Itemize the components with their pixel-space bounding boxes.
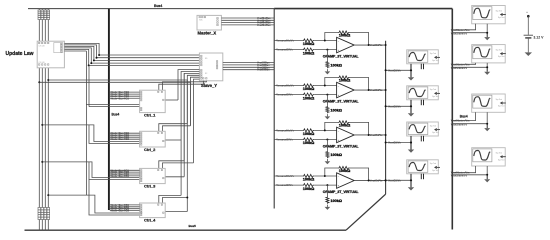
instrument scope XSC4 (middle column) — [407, 160, 439, 174]
ground scope XSC6 — [486, 67, 488, 71]
wire tap to Ctrl_2 — [41, 124, 43, 126]
op-amp U1 OPAMP_3T_VIRTUAL — [337, 37, 355, 53]
wire bus Bus4 top horizontal — [28, 8, 274, 10]
scope XSC7 screen — [473, 95, 492, 108]
instrument scope XSC2 (middle column) — [407, 86, 439, 100]
junction — [93, 59, 95, 61]
pin scope XSC2 left — [410, 100, 412, 114]
wire long vertical B — [88, 65, 90, 106]
svg-text:100kΩ: 100kΩ — [303, 42, 315, 46]
op-amp U2 OPAMP_3T_VIRTUAL — [337, 82, 355, 98]
svg-text:OPAMP_3T_VIRTUAL: OPAMP_3T_VIRTUAL — [323, 100, 360, 104]
subcircuit Update Law — [37, 41, 64, 68]
junction — [88, 64, 90, 66]
svg-text:Sys Test: Sys Test — [498, 55, 505, 58]
svg-text:Sys Test: Sys Test — [496, 98, 503, 101]
svg-text:VoutCtl/Vo: VoutCtl/Vo — [388, 141, 401, 145]
pins Update Law right port block — [54, 43, 63, 53]
svg-text:Slave_Y: Slave_Y — [201, 83, 217, 88]
resistor bottom bus R8 — [47, 208, 50, 220]
scope XSC6 screen — [473, 46, 492, 59]
wire scope XSC5 input 2 — [452, 24, 487, 33]
ground stage 2 — [325, 116, 331, 119]
svg-text:Ctrl_1: Ctrl_1 — [144, 112, 156, 117]
wire sheet border left vertical — [273, 9, 275, 209]
wire Slave_Y left pin 1 bundle — [178, 70, 199, 100]
svg-text:100kΩ: 100kΩ — [339, 169, 351, 173]
wire feedback loop U4 — [325, 168, 338, 176]
resistor Rin2 100kOhm — [303, 48, 315, 51]
wire left column 2 upper — [41, 20, 43, 42]
wire output bus to scope XSC1 — [386, 69, 411, 71]
wire to Slave_Y in 5 — [89, 64, 200, 66]
wire left column 1 lower — [38, 68, 40, 208]
wire scope XSC5 input 1 — [452, 24, 475, 30]
svg-text:Ctrl_3: Ctrl_3 — [144, 183, 156, 188]
wire bundle to Ctrl_2 right pin — [166, 139, 182, 141]
wire bus to Ctrl_1 pin 4 — [110, 97, 140, 99]
svg-text:VoutSl/Bus: VoutSl/Bus — [257, 69, 270, 72]
svg-text:Sys Test: Sys Test — [498, 158, 505, 161]
svg-text:Sys Test: Sys Test — [432, 131, 439, 134]
svg-text:Bus4: Bus4 — [154, 4, 162, 8]
wire op-amp 2 inverting input — [274, 85, 302, 87]
wire bundle to Ctrl_3 right pin — [166, 176, 185, 178]
wire to Slave_Y in 1 — [99, 54, 199, 56]
instrument scope XSC6 (right column) — [472, 45, 506, 63]
capacitor pin scope XSC1 right — [420, 64, 422, 70]
svg-text:Ctrl_2: Ctrl_2 — [144, 147, 156, 152]
wire scope XSC8 input 1 — [452, 166, 475, 173]
svg-text:Bus4: Bus4 — [112, 113, 120, 117]
ground stage 4 — [325, 207, 331, 210]
wire Slave_Y out 1 — [223, 62, 274, 64]
resistor Rg2 100kOhm to ground — [326, 94, 328, 96]
scope XSC2 screen — [408, 87, 428, 98]
svg-text:100kΩ: 100kΩ — [303, 96, 315, 100]
junction — [98, 54, 100, 56]
wire op-amp 2 output — [354, 89, 385, 91]
ground scope XSC3 — [408, 150, 414, 153]
wire op-amp 3 output — [354, 134, 385, 136]
resistor bottom bus R5 — [38, 208, 41, 220]
svg-text:VoutSlave/Vs: VoutSlave/Vs — [451, 66, 468, 70]
wire Update Law out 5 — [64, 49, 88, 65]
capacitor pin scope XSC4 right — [420, 174, 422, 180]
wire Slave_Y left pin 6 bundle — [194, 79, 200, 163]
svg-text:100kΩ: 100kΩ — [330, 153, 342, 157]
svg-text:Sys Test: Sys Test — [496, 9, 503, 12]
wire Master_X out 2 — [221, 19, 274, 21]
wire Master_X out 4 — [221, 24, 274, 26]
wire op-amp 4 inverting input — [274, 175, 302, 177]
wire sheet border right vertical — [451, 9, 453, 230]
wire tap to Ctrl_3 — [41, 161, 43, 163]
wire op-amp 1 output — [354, 44, 385, 46]
wire Slave_Y left pin 4 bundle — [187, 75, 199, 211]
wire bus to Ctrl_3 pin 3 — [110, 173, 140, 175]
wire Master_X out 1 — [221, 17, 274, 19]
svg-text:Sys Test: Sys Test — [430, 52, 437, 55]
junction — [90, 62, 92, 64]
ground stage 3 — [325, 161, 331, 164]
svg-text:Bus4: Bus4 — [460, 114, 468, 118]
scope XSC5 screen — [473, 7, 492, 20]
resistor Rin7 100kOhm — [303, 174, 315, 177]
resistor Rf1 100kOhm feedback — [338, 31, 350, 34]
svg-text:VoutMaster/Vm: VoutMaster/Vm — [451, 119, 470, 123]
wire Slave_Y out 2 — [223, 64, 274, 66]
ground scope XSC2 — [408, 113, 414, 116]
wire bus Bus4 vertical trunk — [108, 9, 110, 210]
wire Slave_Y left pin 2 bundle — [181, 72, 199, 141]
wire bus to Ctrl_4 pin 1 — [110, 204, 140, 206]
resistor top bus R2 — [41, 9, 43, 10]
wire scope XSC7 input 2 — [452, 112, 487, 123]
wire Slave_Y out 4 — [223, 69, 274, 71]
wire diagonal border — [346, 194, 386, 230]
wire Slave_Y out 3 — [223, 66, 274, 68]
wire Master_X out 3 — [221, 22, 274, 24]
wire scope XSC6 input 1 — [452, 63, 475, 64]
junction — [96, 57, 98, 59]
subcircuit Master_X — [197, 15, 221, 30]
wire Ctrl_1 top to Slave_Y bottom — [159, 81, 204, 90]
svg-text:Master_X: Master_X — [198, 30, 217, 35]
resistor top bus R1 — [38, 9, 40, 10]
svg-text:Bus5: Bus5 — [189, 224, 197, 228]
wire bus to Ctrl_3 pin 2 — [110, 171, 140, 173]
wire output bus to scope XSC3 — [386, 142, 411, 144]
svg-text:100kΩ: 100kΩ — [330, 63, 342, 67]
svg-text:VoutCtl/Vo: VoutCtl/Vo — [388, 104, 401, 108]
wire tap to Ctrl_4 — [47, 194, 49, 196]
wire feedback loop U2 — [325, 78, 338, 86]
svg-text:100kΩ: 100kΩ — [339, 33, 351, 37]
scope XSC3 screen — [408, 123, 428, 134]
wire feedback loop U3 — [325, 122, 338, 130]
svg-text:VoutCtl/Vo: VoutCtl/Vo — [370, 133, 383, 137]
resistor Rin5 100kOhm — [303, 129, 315, 132]
resistor Rg3 100kOhm to ground — [326, 139, 328, 141]
svg-text:100kΩ: 100kΩ — [303, 178, 315, 182]
resistor top bus R4 — [47, 9, 49, 10]
resistor Rf4 100kOhm feedback — [338, 166, 350, 169]
wire bus to Ctrl_4 pin 2 — [110, 206, 140, 208]
subcircuit Ctrl_4 — [140, 203, 166, 218]
svg-text:3.12 V: 3.12 V — [533, 36, 544, 40]
svg-text:Sys Test: Sys Test — [498, 105, 505, 108]
svg-text:Sys Test: Sys Test — [432, 169, 439, 172]
svg-text:100kΩ: 100kΩ — [303, 187, 315, 191]
instrument scope XSC8 (right column) — [472, 148, 506, 166]
svg-text:VoutCtl/Vo: VoutCtl/Vo — [370, 179, 383, 183]
wire tap Update-Law bottom B — [47, 79, 49, 81]
scope XSC8 screen — [473, 149, 492, 162]
op-amp U3 OPAMP_3T_VIRTUAL — [337, 127, 355, 143]
svg-text:100kΩ: 100kΩ — [339, 78, 351, 82]
wire op-amp 3 inverting input — [274, 129, 302, 131]
svg-text:Sys Test: Sys Test — [430, 162, 437, 165]
resistor Rg4 100kOhm to ground — [326, 184, 328, 186]
svg-text:C S L B: C S L B — [39, 46, 46, 48]
wire op-amp output bus vertical — [385, 41, 387, 194]
instrument scope XSC5 (right column) — [472, 6, 506, 24]
svg-text:100kΩ: 100kΩ — [303, 87, 315, 91]
svg-text:Node=Bus4/Ctl: Node=Bus4/Ctl — [111, 137, 130, 141]
wire to Slave_Y in 3 — [94, 59, 199, 61]
wire to Slave_Y in 4 — [91, 62, 199, 64]
subcircuit Ctrl_3 — [140, 168, 166, 183]
svg-text:VoutMs/Bus: VoutMs/Bus — [257, 24, 271, 27]
wire left column 4 upper — [47, 20, 49, 42]
svg-text:Node=Bus4/Ctl: Node=Bus4/Ctl — [111, 96, 130, 100]
resistor Rin1 100kOhm — [303, 39, 315, 42]
wire bus to Ctrl_4 pin 3 — [110, 208, 140, 210]
svg-text:100kΩ: 100kΩ — [330, 108, 342, 112]
resistor Rf2 100kOhm feedback — [338, 76, 350, 79]
svg-text:VoutSlave/Vs: VoutSlave/Vs — [451, 123, 468, 127]
svg-text:100kΩ: 100kΩ — [339, 123, 351, 127]
wire Update Law out 1 — [64, 43, 99, 55]
ground stage 1 — [325, 71, 331, 74]
wire left column 3 lower — [44, 68, 46, 208]
wire bundle to Ctrl_4 top — [163, 198, 188, 204]
pin scope XSC4 left — [410, 174, 412, 188]
svg-text:Ctrl_4: Ctrl_4 — [144, 217, 156, 222]
wire sheet border top — [274, 8, 452, 10]
wire op-amp 4 non-inverting input — [274, 184, 302, 186]
svg-text:C S L B: C S L B — [39, 62, 46, 64]
subcircuit Ctrl_2 — [140, 131, 166, 147]
wire op-amp 1 inverting input — [274, 40, 302, 42]
svg-text:Node=Bus4/Ctl: Node=Bus4/Ctl — [111, 209, 130, 213]
wire bundle to Ctrl_3 top — [163, 163, 194, 169]
ground battery — [525, 52, 532, 56]
wire left column 3 upper — [44, 20, 46, 42]
wire Update Law out 3 — [64, 46, 94, 60]
svg-text:OPAMP_3T_VIRTUAL: OPAMP_3T_VIRTUAL — [323, 55, 360, 59]
pin scope XSC1 left — [410, 64, 412, 78]
svg-text:100kΩ: 100kΩ — [303, 132, 315, 136]
wire bus to Ctrl_4 pin 4 — [110, 210, 140, 212]
svg-text:VoutMaster/Vm: VoutMaster/Vm — [451, 28, 470, 32]
svg-text:VoutCtl/Vo: VoutCtl/Vo — [388, 178, 401, 182]
wire Update Law out 4 — [64, 48, 91, 63]
wire bus to Ctrl_3 pin 4 — [110, 175, 140, 177]
wire op-amp 4 output — [354, 180, 385, 182]
wire bus to Ctrl_1 pin 1 — [110, 91, 140, 93]
wire bundle to Ctrl_4 right pin — [166, 211, 188, 213]
wire bus to Ctrl_1 pin 3 — [110, 95, 140, 97]
subcircuit Slave_Y — [199, 53, 222, 81]
wire op-amp 3 non-inverting input — [274, 139, 302, 141]
op-amp U4 OPAMP_3T_VIRTUAL — [337, 173, 355, 189]
ground scope XSC1 — [408, 77, 414, 80]
instrument scope XSC3 (middle column) — [407, 122, 439, 136]
svg-text:VoutCtl/Vo: VoutCtl/Vo — [370, 43, 383, 47]
resistor Rf3 100kOhm feedback — [338, 121, 350, 124]
ground scope XSC8 — [486, 175, 488, 179]
wire scope XSC7 input 1 — [452, 112, 475, 120]
ground scope XSC7 — [486, 124, 488, 128]
svg-text:Sys Test: Sys Test — [498, 16, 505, 19]
svg-text:OPAMP_3T_VIRTUAL: OPAMP_3T_VIRTUAL — [323, 190, 360, 194]
svg-text:Sys Test: Sys Test — [430, 124, 437, 127]
pin scope XSC3 left — [410, 136, 412, 150]
wire left column 1 upper — [38, 20, 40, 42]
svg-text:100kΩ: 100kΩ — [303, 51, 315, 55]
wire to Slave_Y in 2 — [97, 57, 200, 59]
svg-text:VoutCtl/Vo: VoutCtl/Vo — [388, 68, 401, 72]
wire tap to Ctrl_1 lower (2 wires) — [86, 104, 139, 106]
svg-text:Sys Test: Sys Test — [496, 152, 503, 155]
svg-text:VoutCtl/Vo: VoutCtl/Vo — [370, 88, 383, 92]
capacitor pin scope XSC3 right — [420, 136, 422, 142]
resistor Rin3 100kOhm — [303, 84, 315, 87]
resistor Rg1 100kOhm to ground — [326, 49, 328, 51]
svg-text:OPAMP_3T_VIRTUAL: OPAMP_3T_VIRTUAL — [323, 145, 360, 149]
wire bundle to Ctrl_2 top — [163, 126, 191, 132]
wire long vertical A — [85, 51, 87, 195]
wire bus to Ctrl_1 pin 2 — [110, 93, 140, 95]
wire output bus to scope XSC4 — [386, 179, 411, 181]
wire Slave_Y left pin 5 bundle — [190, 77, 199, 126]
resistor top bus R3 — [44, 9, 46, 10]
svg-text:VoutSlave/Vs: VoutSlave/Vs — [451, 32, 468, 36]
svg-text:VoutSlave/Vs: VoutSlave/Vs — [451, 174, 468, 178]
wire bus to Ctrl_2 pin 3 — [110, 136, 140, 138]
svg-text:Update Law: Update Law — [6, 51, 34, 57]
wire left column 2 lower — [41, 68, 43, 208]
wire op-amp 1 non-inverting input — [274, 49, 302, 51]
resistor bottom bus R6 — [41, 208, 44, 220]
wire scope XSC6 input 2 — [452, 63, 487, 67]
ground scope XSC5 — [486, 33, 488, 37]
instrument scope XSC1 (middle column) — [407, 50, 439, 64]
subcircuit Ctrl_1 — [140, 90, 166, 112]
wire bus to Ctrl_2 pin 1 — [110, 132, 140, 134]
svg-text:Sys Test: Sys Test — [430, 88, 437, 91]
resistor Rin8 100kOhm — [303, 184, 315, 187]
scope XSC4 screen — [408, 161, 428, 172]
svg-text:100kΩ: 100kΩ — [330, 199, 342, 203]
instrument scope XSC7 (right column) — [472, 94, 506, 112]
wire Slave_Y left pin 3 bundle — [184, 73, 199, 176]
scope XSC1 screen — [408, 51, 428, 62]
svg-text:Sys Test: Sys Test — [496, 48, 503, 51]
wire bus to Ctrl_3 pin 1 — [110, 169, 140, 171]
wire tap Update-Law bottom A — [38, 81, 40, 83]
wire bus Bus5 bottom horizontal — [25, 229, 347, 231]
wire bus to Ctrl_2 pin 4 — [110, 138, 140, 140]
wire Update Law out 2 — [64, 45, 96, 58]
svg-text:Node=Bus4/Ctl: Node=Bus4/Ctl — [111, 174, 130, 178]
resistor bottom bus R7 — [44, 208, 47, 220]
resistor Rin6 100kOhm — [303, 138, 315, 141]
wire left column 4 lower — [47, 68, 49, 208]
svg-text:Sys Test: Sys Test — [432, 59, 439, 62]
wire output bus to scope XSC2 — [386, 105, 411, 107]
wire bundle to Ctrl_1 right pin — [165, 99, 178, 101]
wire bus to Ctrl_2 pin 2 — [110, 134, 140, 136]
svg-text:100kΩ: 100kΩ — [303, 141, 315, 145]
capacitor pin scope XSC2 right — [420, 100, 422, 106]
wire op-amp 2 non-inverting input — [274, 94, 302, 96]
ground scope XSC4 — [408, 187, 414, 190]
resistor Rin4 100kOhm — [303, 93, 315, 96]
wire scope XSC8 input 2 — [452, 166, 487, 175]
svg-text:Sys Test: Sys Test — [432, 95, 439, 98]
wire feedback loop U1 — [325, 33, 338, 41]
svg-text:VoutMaster/Vm: VoutMaster/Vm — [451, 62, 470, 66]
